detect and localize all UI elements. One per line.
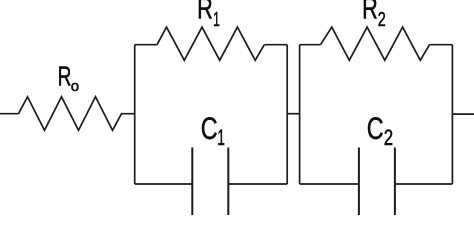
capacitor C1 <box>192 148 228 216</box>
wire block2 bottom-left <box>300 183 359 185</box>
svg-text:1: 1 <box>217 124 225 149</box>
wire block1 bottom-left <box>135 183 193 185</box>
node B: block1 right vertical <box>286 45 288 184</box>
node A: block1 left vertical <box>134 45 136 184</box>
wire block2 top-left stub <box>300 44 321 46</box>
resistor R1 <box>157 27 264 60</box>
wire block1 top-right stub <box>264 44 287 46</box>
wire block1 top-left stub <box>135 44 157 46</box>
wire block2 bottom-right <box>395 183 453 185</box>
svg-text:2: 2 <box>378 8 386 31</box>
svg-text:2: 2 <box>384 126 393 151</box>
node D: block2 right vertical <box>451 45 453 184</box>
svg-text:C: C <box>201 110 218 145</box>
svg-text:R: R <box>362 0 378 25</box>
wire middle connector <box>287 113 299 115</box>
resistor R2 <box>321 27 430 60</box>
svg-text:1: 1 <box>213 9 220 31</box>
wire block1 bottom-right <box>228 183 287 185</box>
capacitor C2 <box>359 148 395 216</box>
wire block2 top-right stub <box>430 44 453 46</box>
wire input lead left <box>0 113 19 115</box>
node C: block2 left vertical <box>299 45 301 184</box>
svg-text:R: R <box>197 0 213 25</box>
svg-text:C: C <box>367 110 384 145</box>
resistor Ro <box>19 97 135 131</box>
wire output lead right <box>452 113 474 115</box>
svg-text:R: R <box>58 61 72 93</box>
svg-text:o: o <box>71 78 79 95</box>
